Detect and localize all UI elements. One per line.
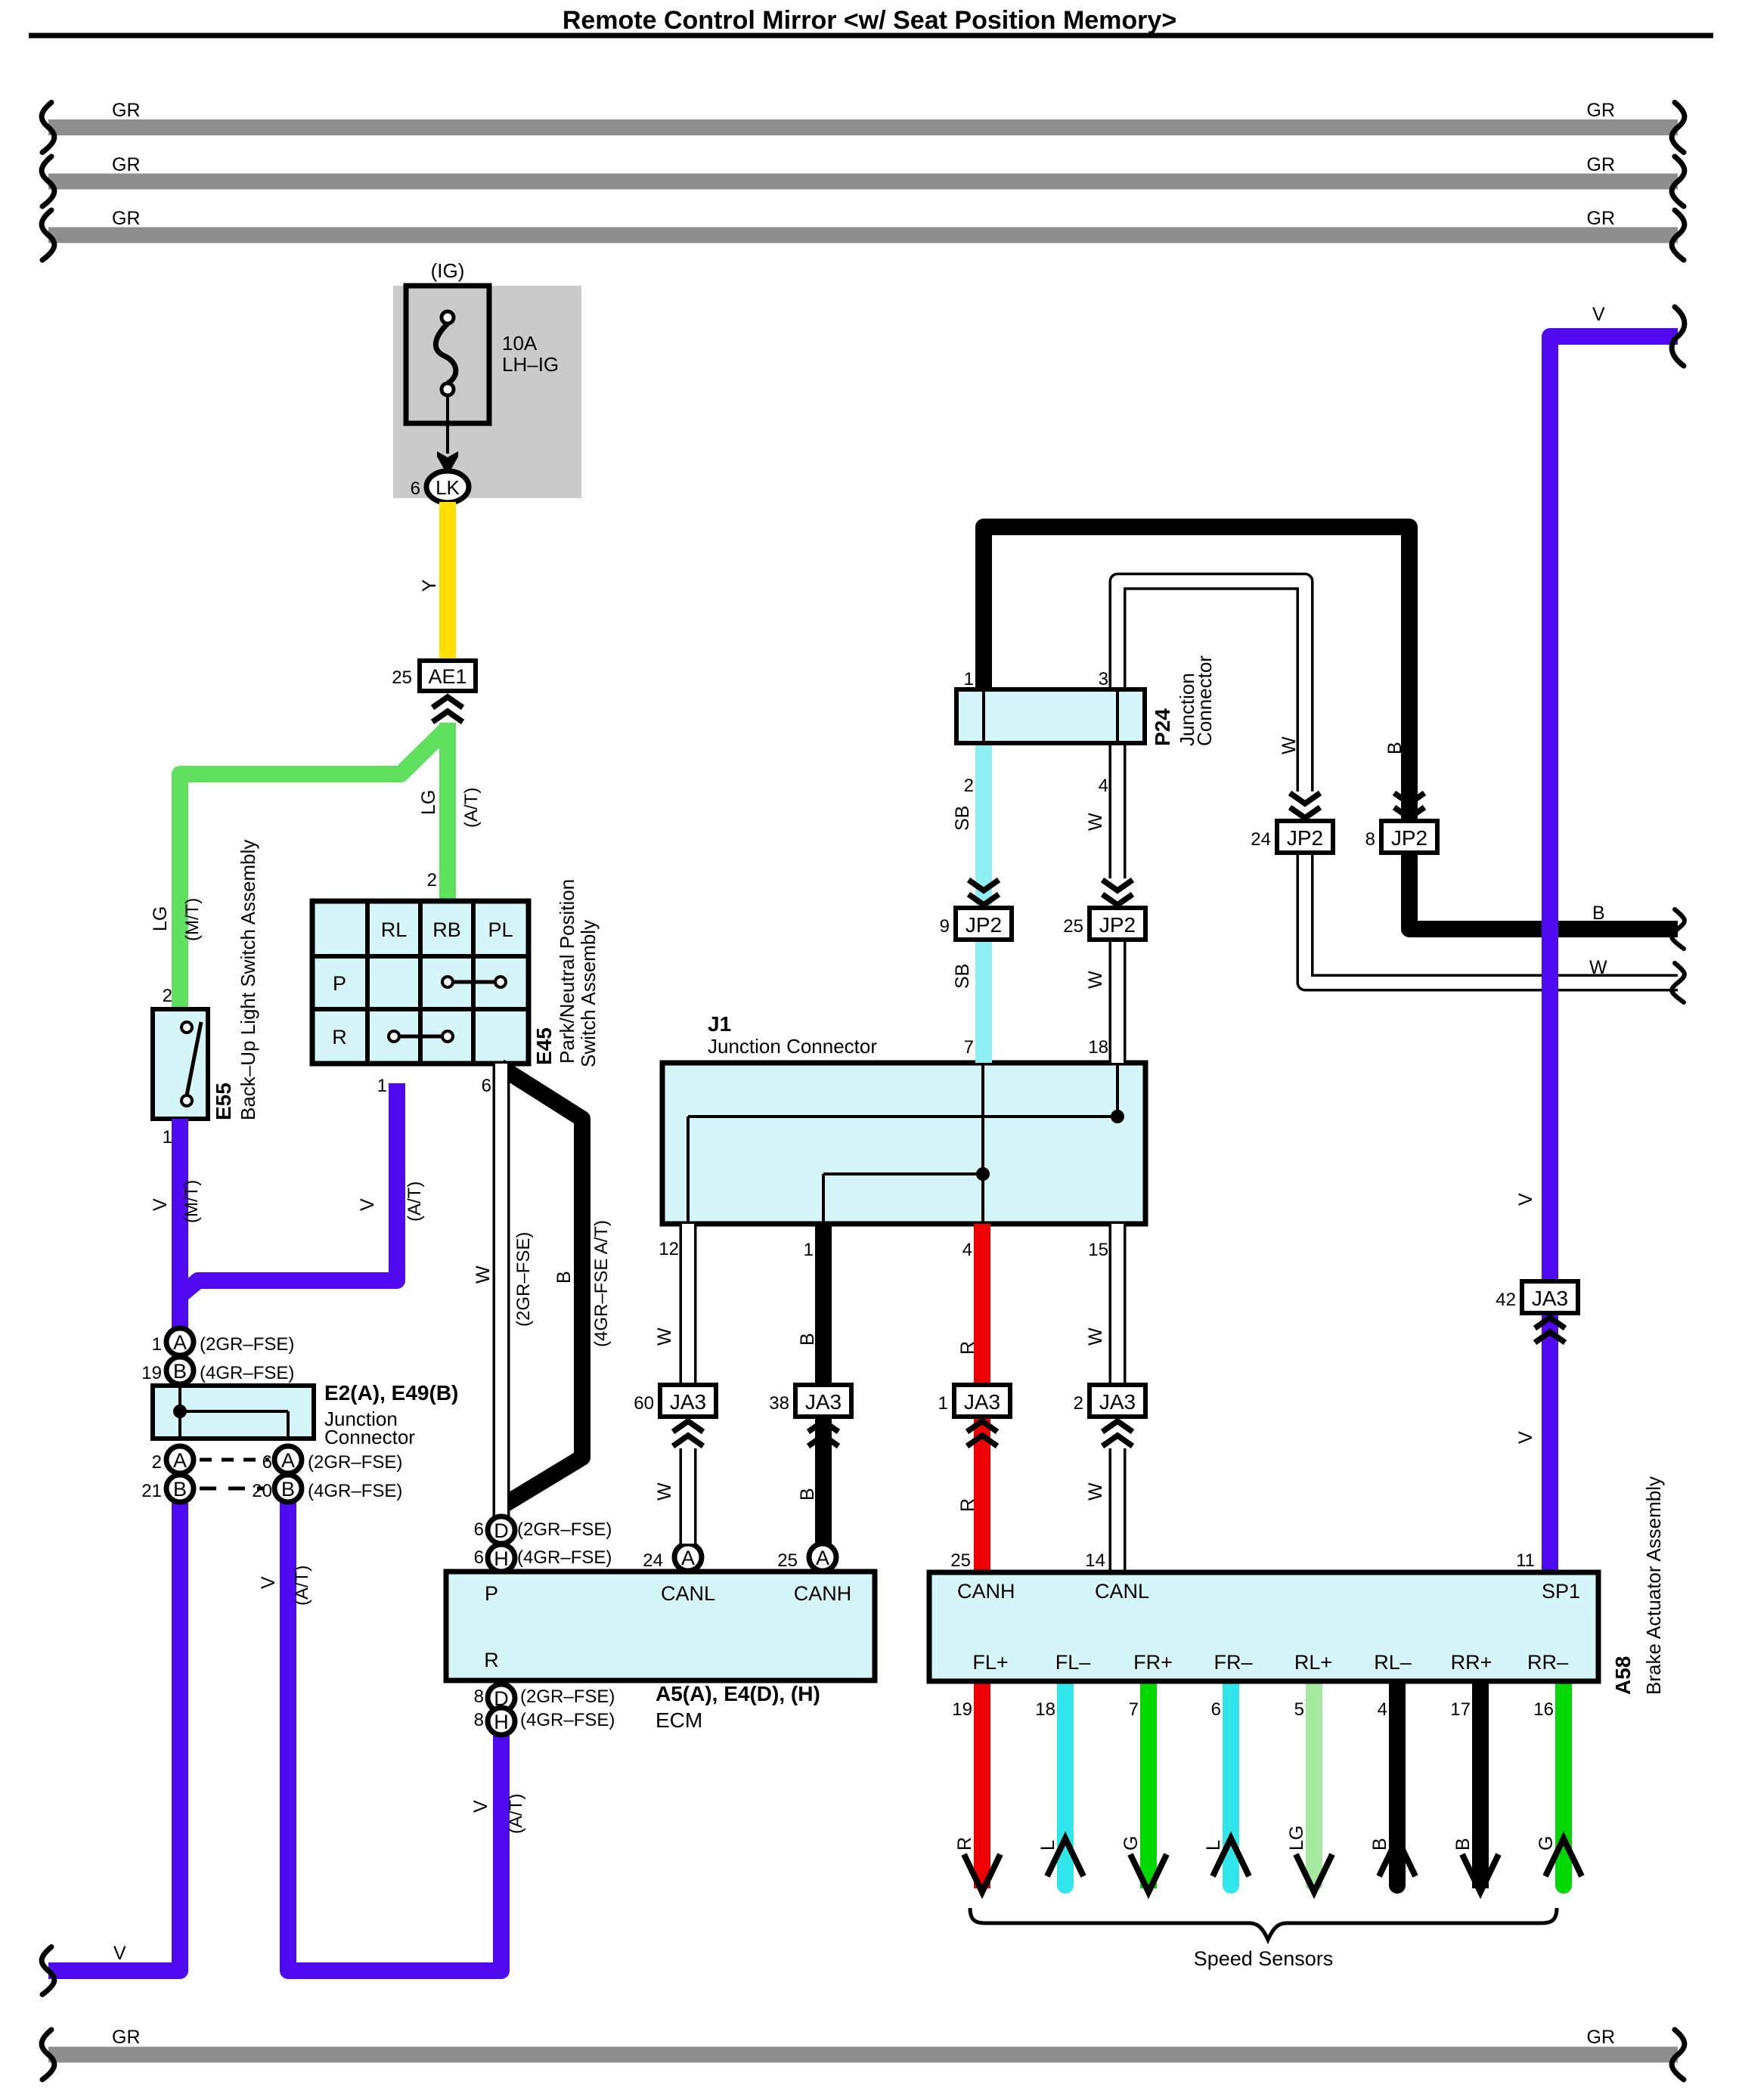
svg-text:1: 1 xyxy=(964,669,974,689)
svg-text:B: B xyxy=(281,1478,295,1501)
svg-text:B: B xyxy=(1452,1838,1474,1851)
svg-text:V: V xyxy=(1515,1431,1536,1444)
svg-text:JA3: JA3 xyxy=(964,1390,1000,1414)
svg-text:PL: PL xyxy=(488,918,513,941)
svg-text:9: 9 xyxy=(940,916,950,937)
svg-text:A58: A58 xyxy=(1611,1656,1635,1695)
svg-text:(2GR–FSE): (2GR–FSE) xyxy=(513,1232,534,1327)
svg-text:FR–: FR– xyxy=(1214,1651,1252,1674)
svg-text:25: 25 xyxy=(392,667,412,688)
svg-text:Speed Sensors: Speed Sensors xyxy=(1194,1947,1334,1970)
svg-text:V: V xyxy=(1515,1193,1536,1206)
svg-text:E45: E45 xyxy=(532,1027,556,1065)
svg-text:25: 25 xyxy=(950,1550,971,1571)
svg-text:(2GR–FSE): (2GR–FSE) xyxy=(520,1687,615,1707)
svg-text:W: W xyxy=(1085,1482,1106,1501)
svg-text:JP2: JP2 xyxy=(966,913,1002,937)
svg-text:4: 4 xyxy=(1099,776,1108,796)
svg-text:1: 1 xyxy=(152,1334,162,1355)
svg-text:15: 15 xyxy=(1088,1240,1108,1260)
svg-text:(M/T): (M/T) xyxy=(181,1180,202,1223)
svg-text:6: 6 xyxy=(474,1519,484,1540)
svg-text:CANL: CANL xyxy=(661,1582,715,1605)
svg-text:Connector: Connector xyxy=(324,1426,415,1448)
svg-text:JP2: JP2 xyxy=(1287,826,1323,850)
svg-text:7: 7 xyxy=(964,1037,974,1058)
svg-text:RL+: RL+ xyxy=(1294,1651,1332,1674)
svg-text:R: R xyxy=(484,1649,499,1671)
svg-text:42: 42 xyxy=(1496,1290,1516,1310)
svg-text:18: 18 xyxy=(1035,1699,1055,1720)
svg-text:R: R xyxy=(332,1026,347,1048)
svg-text:LG: LG xyxy=(1286,1826,1307,1851)
svg-text:W: W xyxy=(654,1327,675,1346)
svg-text:GR: GR xyxy=(112,100,141,121)
svg-text:(4GR–FSE): (4GR–FSE) xyxy=(200,1363,294,1383)
svg-text:B: B xyxy=(1384,742,1406,754)
svg-text:25: 25 xyxy=(777,1550,798,1571)
svg-text:G: G xyxy=(1536,1836,1557,1851)
svg-text:FR+: FR+ xyxy=(1133,1651,1173,1674)
svg-text:7: 7 xyxy=(1129,1699,1139,1720)
svg-text:12: 12 xyxy=(659,1239,679,1259)
svg-text:H: H xyxy=(494,1711,509,1733)
svg-text:RR+: RR+ xyxy=(1451,1651,1492,1674)
svg-text:B: B xyxy=(797,1488,818,1501)
svg-text:LK: LK xyxy=(435,476,460,499)
svg-text:6: 6 xyxy=(474,1547,484,1568)
svg-text:RL: RL xyxy=(381,918,408,941)
svg-text:GR: GR xyxy=(1587,100,1616,121)
svg-text:W: W xyxy=(1279,736,1300,754)
svg-text:G: G xyxy=(1121,1836,1142,1851)
svg-text:11: 11 xyxy=(1516,1550,1535,1571)
svg-text:Park/Neutral Position: Park/Neutral Position xyxy=(556,879,578,1064)
svg-text:V: V xyxy=(150,1198,171,1211)
svg-text:GR: GR xyxy=(112,2027,141,2048)
svg-text:W: W xyxy=(1589,957,1607,978)
svg-text:R: R xyxy=(954,1837,975,1851)
svg-text:4: 4 xyxy=(1378,1699,1387,1720)
svg-text:3: 3 xyxy=(1099,669,1108,689)
svg-text:CANH: CANH xyxy=(957,1580,1015,1603)
svg-text:19: 19 xyxy=(141,1363,162,1383)
svg-text:1: 1 xyxy=(804,1240,814,1260)
svg-text:E55: E55 xyxy=(212,1083,235,1120)
svg-text:GR: GR xyxy=(1587,154,1616,175)
svg-text:FL+: FL+ xyxy=(972,1651,1008,1674)
svg-text:V: V xyxy=(1592,304,1605,325)
svg-text:2: 2 xyxy=(964,776,974,796)
svg-text:38: 38 xyxy=(769,1393,789,1414)
svg-text:RR–: RR– xyxy=(1527,1651,1568,1674)
svg-text:W: W xyxy=(473,1265,494,1284)
svg-text:GR: GR xyxy=(112,208,141,229)
svg-text:1: 1 xyxy=(377,1076,387,1096)
svg-text:RL–: RL– xyxy=(1374,1651,1412,1674)
svg-text:2: 2 xyxy=(427,870,437,890)
svg-text:GR: GR xyxy=(112,154,141,175)
svg-text:A: A xyxy=(173,1331,187,1354)
svg-text:B: B xyxy=(173,1478,187,1501)
svg-text:H: H xyxy=(494,1547,509,1570)
svg-text:JA3: JA3 xyxy=(805,1390,842,1414)
svg-text:W: W xyxy=(1085,1327,1106,1346)
svg-text:8: 8 xyxy=(1365,829,1375,850)
svg-text:L: L xyxy=(1037,1840,1059,1851)
svg-text:4: 4 xyxy=(962,1240,972,1260)
svg-text:D: D xyxy=(494,1519,509,1542)
svg-text:SP1: SP1 xyxy=(1542,1580,1580,1603)
svg-text:14: 14 xyxy=(1085,1550,1105,1571)
svg-text:2: 2 xyxy=(163,986,172,1006)
svg-text:R: R xyxy=(957,1341,978,1355)
svg-text:W: W xyxy=(1085,813,1106,831)
svg-text:6: 6 xyxy=(482,1076,491,1096)
svg-text:B: B xyxy=(173,1360,187,1383)
svg-text:Y: Y xyxy=(419,579,440,592)
svg-text:Junction Connector: Junction Connector xyxy=(708,1035,877,1058)
svg-text:Brake Actuator Assembly: Brake Actuator Assembly xyxy=(1642,1476,1665,1695)
svg-text:18: 18 xyxy=(1088,1037,1108,1058)
svg-text:6: 6 xyxy=(262,1452,272,1473)
svg-text:LH–IG: LH–IG xyxy=(502,353,559,376)
svg-text:CANL: CANL xyxy=(1095,1580,1149,1603)
svg-text:1: 1 xyxy=(938,1393,948,1414)
svg-text:(2GR–FSE): (2GR–FSE) xyxy=(200,1334,294,1355)
svg-text:Switch Assembly: Switch Assembly xyxy=(577,920,600,1067)
svg-text:SB: SB xyxy=(952,806,973,831)
svg-text:Remote Control Mirror <w/ Seat: Remote Control Mirror <w/ Seat Position … xyxy=(563,6,1176,35)
svg-text:A5(A), E4(D), (H): A5(A), E4(D), (H) xyxy=(656,1682,820,1705)
svg-text:RB: RB xyxy=(432,918,461,941)
svg-text:W: W xyxy=(654,1482,675,1501)
svg-text:(4GR–FSE A/T): (4GR–FSE A/T) xyxy=(591,1220,612,1347)
svg-text:24: 24 xyxy=(1251,829,1271,850)
svg-text:8: 8 xyxy=(474,1710,484,1730)
svg-text:LG: LG xyxy=(150,906,171,931)
svg-text:(A/T): (A/T) xyxy=(461,788,482,828)
svg-text:B: B xyxy=(1592,903,1605,924)
svg-text:GR: GR xyxy=(1587,2027,1616,2048)
svg-text:B: B xyxy=(553,1271,575,1284)
svg-text:60: 60 xyxy=(634,1393,654,1414)
svg-text:5: 5 xyxy=(1294,1699,1304,1720)
svg-text:(A/T): (A/T) xyxy=(292,1566,312,1606)
svg-text:J1: J1 xyxy=(708,1012,731,1036)
svg-text:AE1: AE1 xyxy=(428,665,466,688)
svg-text:6: 6 xyxy=(1211,1699,1221,1720)
svg-text:10A: 10A xyxy=(502,332,538,355)
svg-text:19: 19 xyxy=(952,1699,972,1720)
svg-text:JA3: JA3 xyxy=(1532,1287,1568,1310)
svg-text:P: P xyxy=(333,972,346,995)
svg-text:W: W xyxy=(1085,971,1106,989)
svg-text:21: 21 xyxy=(141,1481,162,1501)
svg-text:17: 17 xyxy=(1450,1699,1471,1720)
svg-text:SB: SB xyxy=(952,964,973,989)
svg-text:16: 16 xyxy=(1533,1699,1554,1720)
svg-text:(2GR–FSE): (2GR–FSE) xyxy=(308,1452,402,1473)
svg-text:B: B xyxy=(797,1333,818,1346)
svg-text:JP2: JP2 xyxy=(1391,826,1427,850)
svg-text:JP2: JP2 xyxy=(1099,913,1136,937)
svg-text:V: V xyxy=(113,1943,126,1964)
svg-text:B: B xyxy=(1369,1838,1390,1851)
svg-text:(A/T): (A/T) xyxy=(506,1794,526,1834)
svg-text:CANH: CANH xyxy=(794,1582,852,1605)
svg-text:JA3: JA3 xyxy=(670,1390,706,1414)
svg-text:GR: GR xyxy=(1587,208,1616,229)
svg-text:2: 2 xyxy=(1074,1393,1083,1414)
svg-text:ECM: ECM xyxy=(656,1708,702,1732)
svg-text:V: V xyxy=(470,1800,491,1813)
svg-text:(2GR–FSE): (2GR–FSE) xyxy=(517,1519,612,1540)
svg-text:R: R xyxy=(957,1498,978,1512)
svg-text:20: 20 xyxy=(252,1481,272,1501)
svg-text:P24: P24 xyxy=(1151,708,1174,746)
svg-text:(4GR–FSE): (4GR–FSE) xyxy=(308,1481,402,1501)
svg-text:(A/T): (A/T) xyxy=(405,1182,425,1222)
svg-text:(4GR–FSE): (4GR–FSE) xyxy=(517,1547,612,1568)
svg-text:FL–: FL– xyxy=(1055,1651,1091,1674)
svg-text:V: V xyxy=(258,1576,279,1589)
svg-text:A: A xyxy=(681,1547,695,1569)
svg-text:(M/T): (M/T) xyxy=(182,898,203,941)
svg-text:8: 8 xyxy=(474,1687,484,1707)
svg-text:P: P xyxy=(485,1582,498,1605)
svg-text:2: 2 xyxy=(152,1452,162,1473)
svg-text:L: L xyxy=(1203,1840,1224,1851)
svg-text:Back–Up Light Switch Assembly: Back–Up Light Switch Assembly xyxy=(237,840,259,1120)
svg-text:LG: LG xyxy=(418,790,439,815)
svg-text:(IG): (IG) xyxy=(431,259,465,282)
svg-text:25: 25 xyxy=(1063,916,1083,937)
svg-text:A: A xyxy=(173,1449,187,1472)
svg-text:E2(A), E49(B): E2(A), E49(B) xyxy=(324,1381,458,1405)
svg-text:1: 1 xyxy=(163,1127,172,1148)
svg-text:24: 24 xyxy=(643,1550,663,1571)
svg-text:A: A xyxy=(281,1449,295,1472)
svg-text:6: 6 xyxy=(411,479,420,499)
svg-text:JA3: JA3 xyxy=(1099,1390,1136,1414)
svg-text:(4GR–FSE): (4GR–FSE) xyxy=(520,1710,615,1730)
svg-text:A: A xyxy=(816,1547,829,1569)
svg-text:Connector: Connector xyxy=(1193,655,1216,746)
svg-text:V: V xyxy=(357,1198,378,1211)
